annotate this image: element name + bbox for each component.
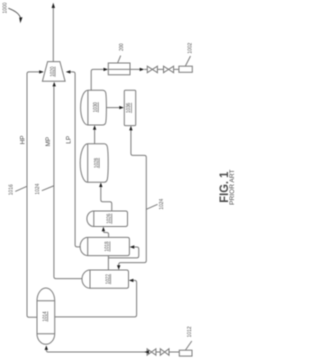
svg-text:1012: 1012 [187,326,193,337]
heat exchanger 200 [108,63,130,75]
arrow into 1018 right [130,245,135,248]
leader for label 1002 [185,56,190,66]
valve V1 (top) [147,66,157,73]
svg-text:1018: 1018 [105,241,111,251]
svg-text:1024: 1024 [35,184,41,195]
wire MP line: compressor bottom inlet down to vessel 1022 left cap [54,86,83,278]
wire vessel 1014 right side up into vessel 1022 right end [55,280,137,317]
arrow at page top outlet [52,3,55,8]
wire feed line from 1012 through valves into vessel 1014 bottom [46,350,179,352]
svg-text:MP: MP [45,137,52,147]
arrow into 1028 bottom [99,183,102,188]
arrow into 1036 left [119,106,124,109]
wire vessel 1018 top to vessel 1026 bottom [103,231,108,237]
arrow after 200 [140,68,145,71]
wire vessel 1030 right to box 1036 [106,107,119,109]
svg-text:1028: 1028 [94,158,100,168]
svg-text:1030: 1030 [93,102,99,112]
arrow into 1022 right [129,279,134,282]
wire vessel 1026 top to vessel 1028 bottom [101,187,112,211]
label 1000 [2,3,22,24]
column 1014 [37,288,55,344]
wire LP line: compressor right inlet down to vessel 1018 left cap [70,72,80,247]
valve V4 (bottom) [160,349,169,355]
leader for label 1024 right [146,204,157,209]
arrow into 1026 bottom [102,227,105,232]
svg-text:PRIOR ART: PRIOR ART [229,169,236,205]
wire 200 to valve V1 to valve V2 to unit 1002 [130,68,179,70]
arrow into 1014 bottom [45,345,48,350]
wire reboil loop into vessel 1018 right end [108,247,138,258]
svg-text:1026: 1026 [106,214,112,224]
svg-text:1024: 1024 [159,199,165,210]
unit 1012 [179,350,192,356]
arrow into compressor right [66,70,71,73]
arrow into 1030 bottom [93,125,96,130]
arrow into 200 [104,68,109,71]
wire vessel 1030 top to heat exchanger 200 [91,69,104,90]
svg-text:200: 200 [119,43,125,51]
leader squiggle for 1000 [8,8,20,18]
vessel 1018 [80,237,129,255]
wire compressor outlet up to page top arrow [52,8,54,62]
vessel 1022 [82,270,129,288]
valve V2 (top) [164,66,174,73]
box 1036 [124,90,135,125]
svg-text:1002: 1002 [187,43,193,54]
arrow on feed line to 1014 [144,350,149,353]
wire 1024 recycle line: 1036 bottom down, across, down into 1022 top [119,130,147,265]
svg-text:1016: 1016 [8,184,14,195]
leader for label 1016 [15,186,27,191]
valve V3 (bottom) [147,349,156,355]
arrow into compressor bottom [53,82,56,87]
wire HP line: compressor left inlet down to vessel 1014 left side [27,72,40,317]
svg-text:1000: 1000 [2,3,8,14]
svg-text:1020: 1020 [50,67,56,77]
svg-text:LP: LP [65,136,72,144]
arrow into 1022 top [117,265,120,270]
svg-text:1014: 1014 [42,311,48,321]
svg-text:HP: HP [19,135,26,144]
wire vessel 1018 bottom to vessel 1022 top [107,256,109,270]
leader for label 1024 left [42,186,54,191]
wire vessel 1028 top to vessel 1030 bottom [94,130,96,144]
vessel 1026 [87,211,128,227]
svg-text:1022: 1022 [105,274,111,284]
vessel 1030 [81,90,107,125]
leader for label 1012 [186,341,192,350]
arrowheads [39,3,149,354]
svg-text:1036: 1036 [126,103,132,113]
arrow into compressor left [39,70,44,73]
leader for label 200 [118,56,121,63]
compressor 1020 [42,62,65,82]
unit 1002 [179,66,192,72]
arrow into 1036 bottom [129,126,132,131]
vessel 1028 [80,144,108,183]
